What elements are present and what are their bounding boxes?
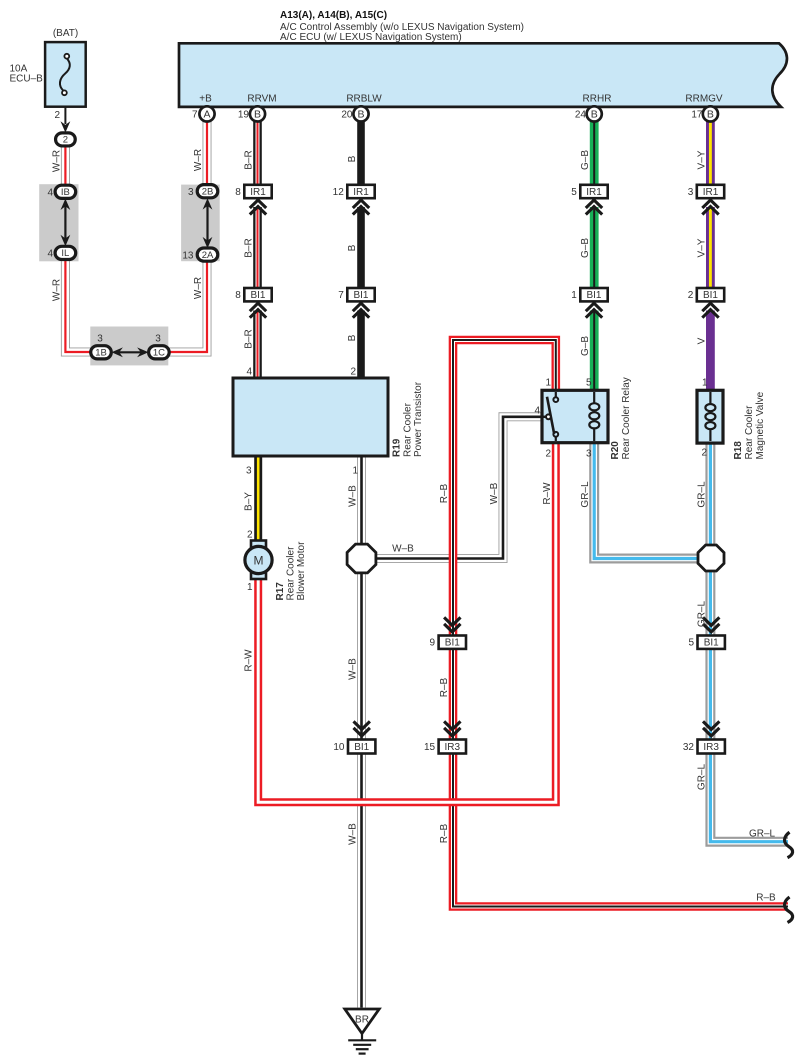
- svg-text:GR–L: GR–L: [696, 601, 707, 628]
- svg-text:M: M: [254, 553, 264, 567]
- svg-text:Rear Cooler Relay: Rear Cooler Relay: [621, 377, 632, 459]
- svg-text:4: 4: [246, 367, 252, 378]
- svg-text:B–Y: B–Y: [244, 492, 255, 511]
- svg-text:Magnetic Valve: Magnetic Valve: [755, 391, 766, 459]
- svg-text:R20: R20: [610, 441, 621, 460]
- svg-text:Rear Cooler: Rear Cooler: [403, 402, 414, 457]
- svg-text:2: 2: [688, 290, 694, 301]
- svg-text:W–B: W–B: [489, 482, 500, 504]
- svg-text:20: 20: [341, 109, 353, 120]
- svg-text:13: 13: [182, 250, 194, 261]
- svg-text:4: 4: [47, 248, 53, 259]
- svg-text:B: B: [707, 109, 714, 121]
- svg-text:G–B: G–B: [580, 150, 591, 170]
- svg-text:RRBLW: RRBLW: [346, 94, 382, 105]
- svg-text:4: 4: [47, 187, 53, 198]
- svg-text:W–R: W–R: [51, 279, 62, 301]
- svg-text:W–R: W–R: [193, 149, 204, 171]
- svg-text:W–B: W–B: [348, 823, 359, 845]
- svg-text:IR3: IR3: [703, 742, 719, 753]
- svg-text:2A: 2A: [202, 250, 214, 261]
- svg-text:3: 3: [155, 334, 161, 345]
- svg-text:BI1: BI1: [445, 638, 460, 649]
- svg-text:IR1: IR1: [703, 187, 719, 198]
- svg-text:2: 2: [350, 367, 356, 378]
- svg-text:Rear Cooler: Rear Cooler: [744, 405, 755, 460]
- svg-text:W–B: W–B: [348, 658, 359, 680]
- svg-text:1: 1: [247, 582, 253, 593]
- svg-text:2: 2: [701, 448, 707, 459]
- svg-text:IR1: IR1: [353, 187, 369, 198]
- svg-text:3: 3: [688, 187, 694, 198]
- svg-text:W–R: W–R: [51, 150, 62, 172]
- svg-text:1C: 1C: [153, 348, 165, 359]
- svg-text:R–W: R–W: [542, 482, 553, 505]
- svg-text:5: 5: [586, 378, 592, 389]
- svg-text:1: 1: [352, 466, 358, 477]
- svg-text:8: 8: [235, 187, 241, 198]
- svg-text:BI1: BI1: [250, 290, 265, 301]
- svg-text:5: 5: [688, 638, 694, 649]
- svg-text:1B: 1B: [95, 348, 107, 359]
- svg-text:17: 17: [691, 109, 703, 120]
- svg-text:2: 2: [54, 110, 60, 121]
- svg-text:B: B: [591, 109, 598, 121]
- svg-text:B–R: B–R: [244, 238, 255, 257]
- svg-text:2B: 2B: [202, 186, 214, 197]
- svg-text:B: B: [347, 155, 358, 162]
- svg-text:1: 1: [545, 378, 551, 389]
- svg-text:(BAT): (BAT): [53, 28, 78, 39]
- svg-text:GR–L: GR–L: [696, 764, 707, 791]
- svg-text:9: 9: [430, 638, 436, 649]
- svg-text:A/C ECU (w/ LEXUS Navigation S: A/C ECU (w/ LEXUS Navigation System): [280, 32, 462, 43]
- svg-text:BI1: BI1: [703, 290, 718, 301]
- svg-text:3: 3: [97, 334, 103, 345]
- svg-text:R17: R17: [275, 582, 286, 601]
- svg-text:2: 2: [545, 449, 551, 460]
- svg-text:B: B: [347, 244, 358, 251]
- svg-text:RRVM: RRVM: [247, 94, 276, 105]
- svg-text:BI1: BI1: [353, 290, 368, 301]
- svg-text:W–B: W–B: [392, 544, 414, 555]
- svg-text:IR1: IR1: [250, 187, 266, 198]
- svg-text:IB: IB: [61, 187, 70, 198]
- svg-text:15: 15: [424, 742, 436, 753]
- svg-text:B: B: [254, 109, 261, 121]
- svg-text:A13(A), A14(B), A15(C): A13(A), A14(B), A15(C): [280, 10, 387, 21]
- svg-text:W–B: W–B: [348, 485, 359, 507]
- svg-text:ECU–B: ECU–B: [10, 73, 44, 84]
- svg-text:B: B: [347, 334, 358, 341]
- svg-text:G–B: G–B: [580, 336, 591, 356]
- svg-text:V: V: [696, 337, 707, 344]
- svg-text:B: B: [357, 109, 364, 121]
- svg-text:1: 1: [702, 378, 708, 389]
- svg-text:B–R: B–R: [244, 150, 255, 169]
- svg-text:R–B: R–B: [439, 483, 450, 503]
- svg-text:2: 2: [63, 135, 68, 146]
- svg-text:BI1: BI1: [586, 290, 601, 301]
- svg-text:10: 10: [333, 742, 345, 753]
- svg-text:IR1: IR1: [586, 187, 602, 198]
- svg-text:V–Y: V–Y: [696, 150, 707, 169]
- svg-text:12: 12: [333, 187, 345, 198]
- svg-text:R–W: R–W: [244, 649, 255, 672]
- svg-text:3: 3: [246, 466, 252, 477]
- svg-text:BR: BR: [355, 1015, 369, 1026]
- svg-text:8: 8: [235, 290, 241, 301]
- svg-text:B–R: B–R: [244, 329, 255, 348]
- svg-text:19: 19: [238, 109, 250, 120]
- svg-text:32: 32: [683, 742, 695, 753]
- svg-text:7: 7: [338, 290, 344, 301]
- svg-text:GR–L: GR–L: [580, 481, 591, 508]
- svg-text:RRHR: RRHR: [583, 94, 612, 105]
- svg-text:3: 3: [188, 187, 194, 198]
- svg-text:W–R: W–R: [193, 277, 204, 299]
- svg-text:RRMGV: RRMGV: [685, 94, 723, 105]
- svg-text:R–B: R–B: [756, 893, 776, 904]
- svg-text:GR–L: GR–L: [696, 481, 707, 508]
- svg-text:R18: R18: [733, 441, 744, 460]
- svg-text:2: 2: [247, 530, 253, 541]
- svg-text:+B: +B: [199, 94, 212, 105]
- svg-text:IL: IL: [61, 248, 69, 259]
- svg-text:Blower Motor: Blower Motor: [296, 541, 307, 601]
- svg-text:G–B: G–B: [580, 238, 591, 258]
- svg-text:R19: R19: [392, 438, 403, 457]
- svg-text:A: A: [203, 109, 210, 121]
- svg-text:Power Transistor: Power Transistor: [413, 381, 424, 457]
- svg-text:R–B: R–B: [439, 677, 450, 697]
- svg-text:IR3: IR3: [445, 742, 461, 753]
- svg-text:R–B: R–B: [439, 823, 450, 843]
- svg-text:BI1: BI1: [354, 742, 369, 753]
- svg-text:24: 24: [575, 109, 587, 120]
- svg-text:BI1: BI1: [704, 638, 719, 649]
- svg-text:5: 5: [571, 187, 577, 198]
- svg-text:7: 7: [192, 109, 198, 120]
- svg-text:GR–L: GR–L: [749, 829, 776, 840]
- svg-text:1: 1: [571, 290, 577, 301]
- svg-text:Rear Cooler: Rear Cooler: [286, 546, 297, 601]
- svg-text:3: 3: [586, 449, 592, 460]
- svg-text:4: 4: [534, 406, 540, 417]
- svg-text:V–Y: V–Y: [696, 238, 707, 257]
